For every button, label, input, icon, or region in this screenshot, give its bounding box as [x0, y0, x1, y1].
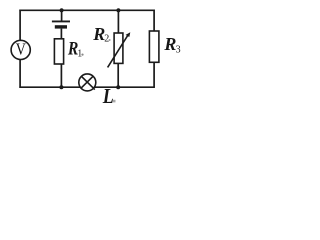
junction dot bottom (R1 branch): [59, 85, 63, 89]
resistor R2 body (rheostat): [114, 33, 123, 63]
wire right edge lower (R3 to bottom): [153, 62, 155, 88]
wire R1 to bottom bus: [60, 64, 62, 87]
battery B1 long plate (positive): [52, 20, 70, 22]
rheostat R2 arrowhead: [126, 32, 131, 37]
junction dot top-right (R2 branch): [116, 8, 120, 12]
battery B1 short plate (negative): [55, 25, 67, 28]
junction dot top-left (battery branch): [60, 8, 64, 12]
svg-text:2: 2: [104, 33, 109, 44]
wire right edge upper (to R3): [153, 10, 155, 32]
wire left edge upper (to voltmeter): [19, 10, 21, 41]
voltmeter V body: [11, 40, 30, 59]
junction dot bottom (R2 branch): [116, 85, 120, 89]
svg-text:L: L: [102, 85, 114, 106]
rheostat R2 arrow shaft: [108, 34, 129, 67]
wire battery to R1: [60, 29, 62, 39]
resistor R1 body: [54, 39, 63, 64]
svg-text:R: R: [163, 34, 176, 54]
svg-text:1: 1: [77, 49, 82, 60]
wire R2 to bottom bus: [117, 63, 119, 87]
resistor R3 body: [149, 31, 159, 62]
svg-text:V: V: [16, 40, 27, 59]
lamp L cross stroke NE-SW: [81, 76, 94, 89]
wire battery drop from top bus: [61, 10, 63, 20]
label L subscript mark: [113, 100, 116, 103]
wire left edge lower (voltmeter to bottom): [19, 60, 21, 88]
lamp L body: [79, 74, 96, 91]
svg-text:3: 3: [176, 44, 181, 55]
wire top bus: [19, 9, 154, 11]
lamp L cross stroke NW-SE: [81, 76, 94, 89]
wire bottom bus: [19, 86, 154, 88]
wire R2 drop from top bus: [117, 10, 119, 33]
label R1 artifact dot: [81, 54, 83, 56]
label R2 artifact dot: [109, 39, 111, 41]
